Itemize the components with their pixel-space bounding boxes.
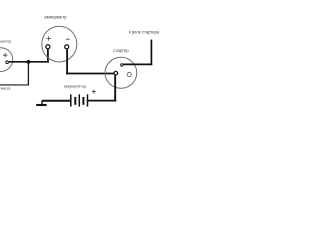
svg-text:к массе: к массе	[0, 87, 11, 91]
generator plus mark	[3, 53, 7, 57]
svg-text:аккумулятор: аккумулятор	[64, 83, 87, 88]
junction node	[27, 60, 31, 64]
starter M1 body	[105, 57, 137, 88]
wire up to ammeter left terminal (vertical)	[47, 49, 49, 63]
svg-text:амперметр: амперметр	[44, 15, 67, 20]
wire to left edge (to chassis)	[0, 84, 29, 86]
ammeter left terminal	[46, 45, 50, 49]
ammeter minus mark	[66, 38, 70, 40]
battery plate (short)	[82, 97, 84, 105]
starter relay terminal	[121, 64, 123, 66]
wire junction down	[27, 62, 29, 85]
battery GB1 plate (long)	[70, 94, 72, 106]
battery plate (long)	[78, 94, 80, 106]
svg-text:стартер: стартер	[113, 48, 129, 53]
battery plus label	[92, 90, 96, 94]
starter spare terminal (unconnected)	[127, 73, 131, 77]
wire battery minus to chassis	[42, 100, 70, 102]
ammeter plus mark	[46, 36, 51, 41]
wire ammeter right terminal down	[66, 49, 68, 74]
wire starter post down to battery	[114, 75, 116, 101]
wire across to starter terminal	[66, 73, 114, 75]
starter battery post terminal	[114, 71, 118, 75]
chassis ground drop	[41, 101, 43, 105]
generator G1 (circle clipped at left edge)	[0, 48, 13, 72]
wire generator terminal to ammeter (horizontal)	[9, 61, 49, 63]
ammeter A1 body	[42, 26, 77, 62]
generator output terminal	[6, 61, 9, 64]
svg-text:генератор: генератор	[0, 40, 11, 44]
wire starter relay terminal to right	[123, 63, 152, 65]
svg-text:к реле стартера: к реле стартера	[129, 30, 160, 35]
ammeter right terminal	[65, 45, 69, 49]
wire up toward relay	[150, 40, 152, 66]
chassis ground bar	[36, 104, 46, 106]
wire battery plus to starter	[87, 100, 117, 102]
battery plate (long)	[87, 94, 89, 106]
battery plate (short)	[74, 97, 76, 105]
